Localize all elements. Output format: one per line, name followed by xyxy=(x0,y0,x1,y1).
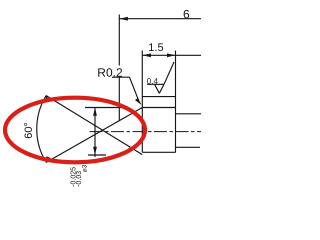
arrow 1.5 left xyxy=(143,53,151,57)
wire angular dimension arc 60 xyxy=(37,96,46,161)
arrow arc bottom end xyxy=(45,156,50,162)
arrow R0.2 leader xyxy=(135,98,142,105)
svg-text:6: 6 xyxy=(183,7,190,21)
wire extension line of 6 (lower) xyxy=(118,78,120,121)
wire vertical dimension line xyxy=(94,108,96,158)
arrow 1.5 right xyxy=(167,53,175,57)
arrow vertical dim top xyxy=(93,108,97,116)
wire extension line of 6 (upper) xyxy=(118,15,120,66)
wire dimension line 1.5 xyxy=(142,54,201,56)
surface finish symbol 0.4 xyxy=(147,62,174,93)
centerline axis xyxy=(90,131,202,133)
wire extension tick top xyxy=(85,107,124,109)
svg-text:1.5: 1.5 xyxy=(148,42,163,54)
node step bottom edge xyxy=(176,146,201,148)
wire part shoulder edge / right extension xyxy=(175,51,177,153)
node part top edge xyxy=(142,96,175,98)
arrow arc top end xyxy=(46,95,49,102)
wire part face / left extension xyxy=(141,51,143,153)
node step top edge xyxy=(176,113,202,115)
node part bottom edge xyxy=(142,151,175,153)
wire dimension line 6 xyxy=(119,18,201,20)
wire cone flank upper (extended) xyxy=(46,108,142,163)
wire extension tick bottom xyxy=(88,154,106,156)
svg-text:0.4: 0.4 xyxy=(147,77,159,86)
svg-text:60°: 60° xyxy=(23,122,35,139)
highlight red ellipse xyxy=(5,98,145,163)
arrow vertical dim bottom xyxy=(93,147,97,155)
arrow of 6 dim xyxy=(119,17,128,21)
wire cone flank lower (extended) xyxy=(46,96,142,155)
svg-text:-0.03: -0.03 xyxy=(76,171,83,187)
wire leader line R0.2 xyxy=(112,76,130,78)
node counterbore edge line xyxy=(142,107,175,109)
svg-text:R0.2: R0.2 xyxy=(97,66,123,80)
